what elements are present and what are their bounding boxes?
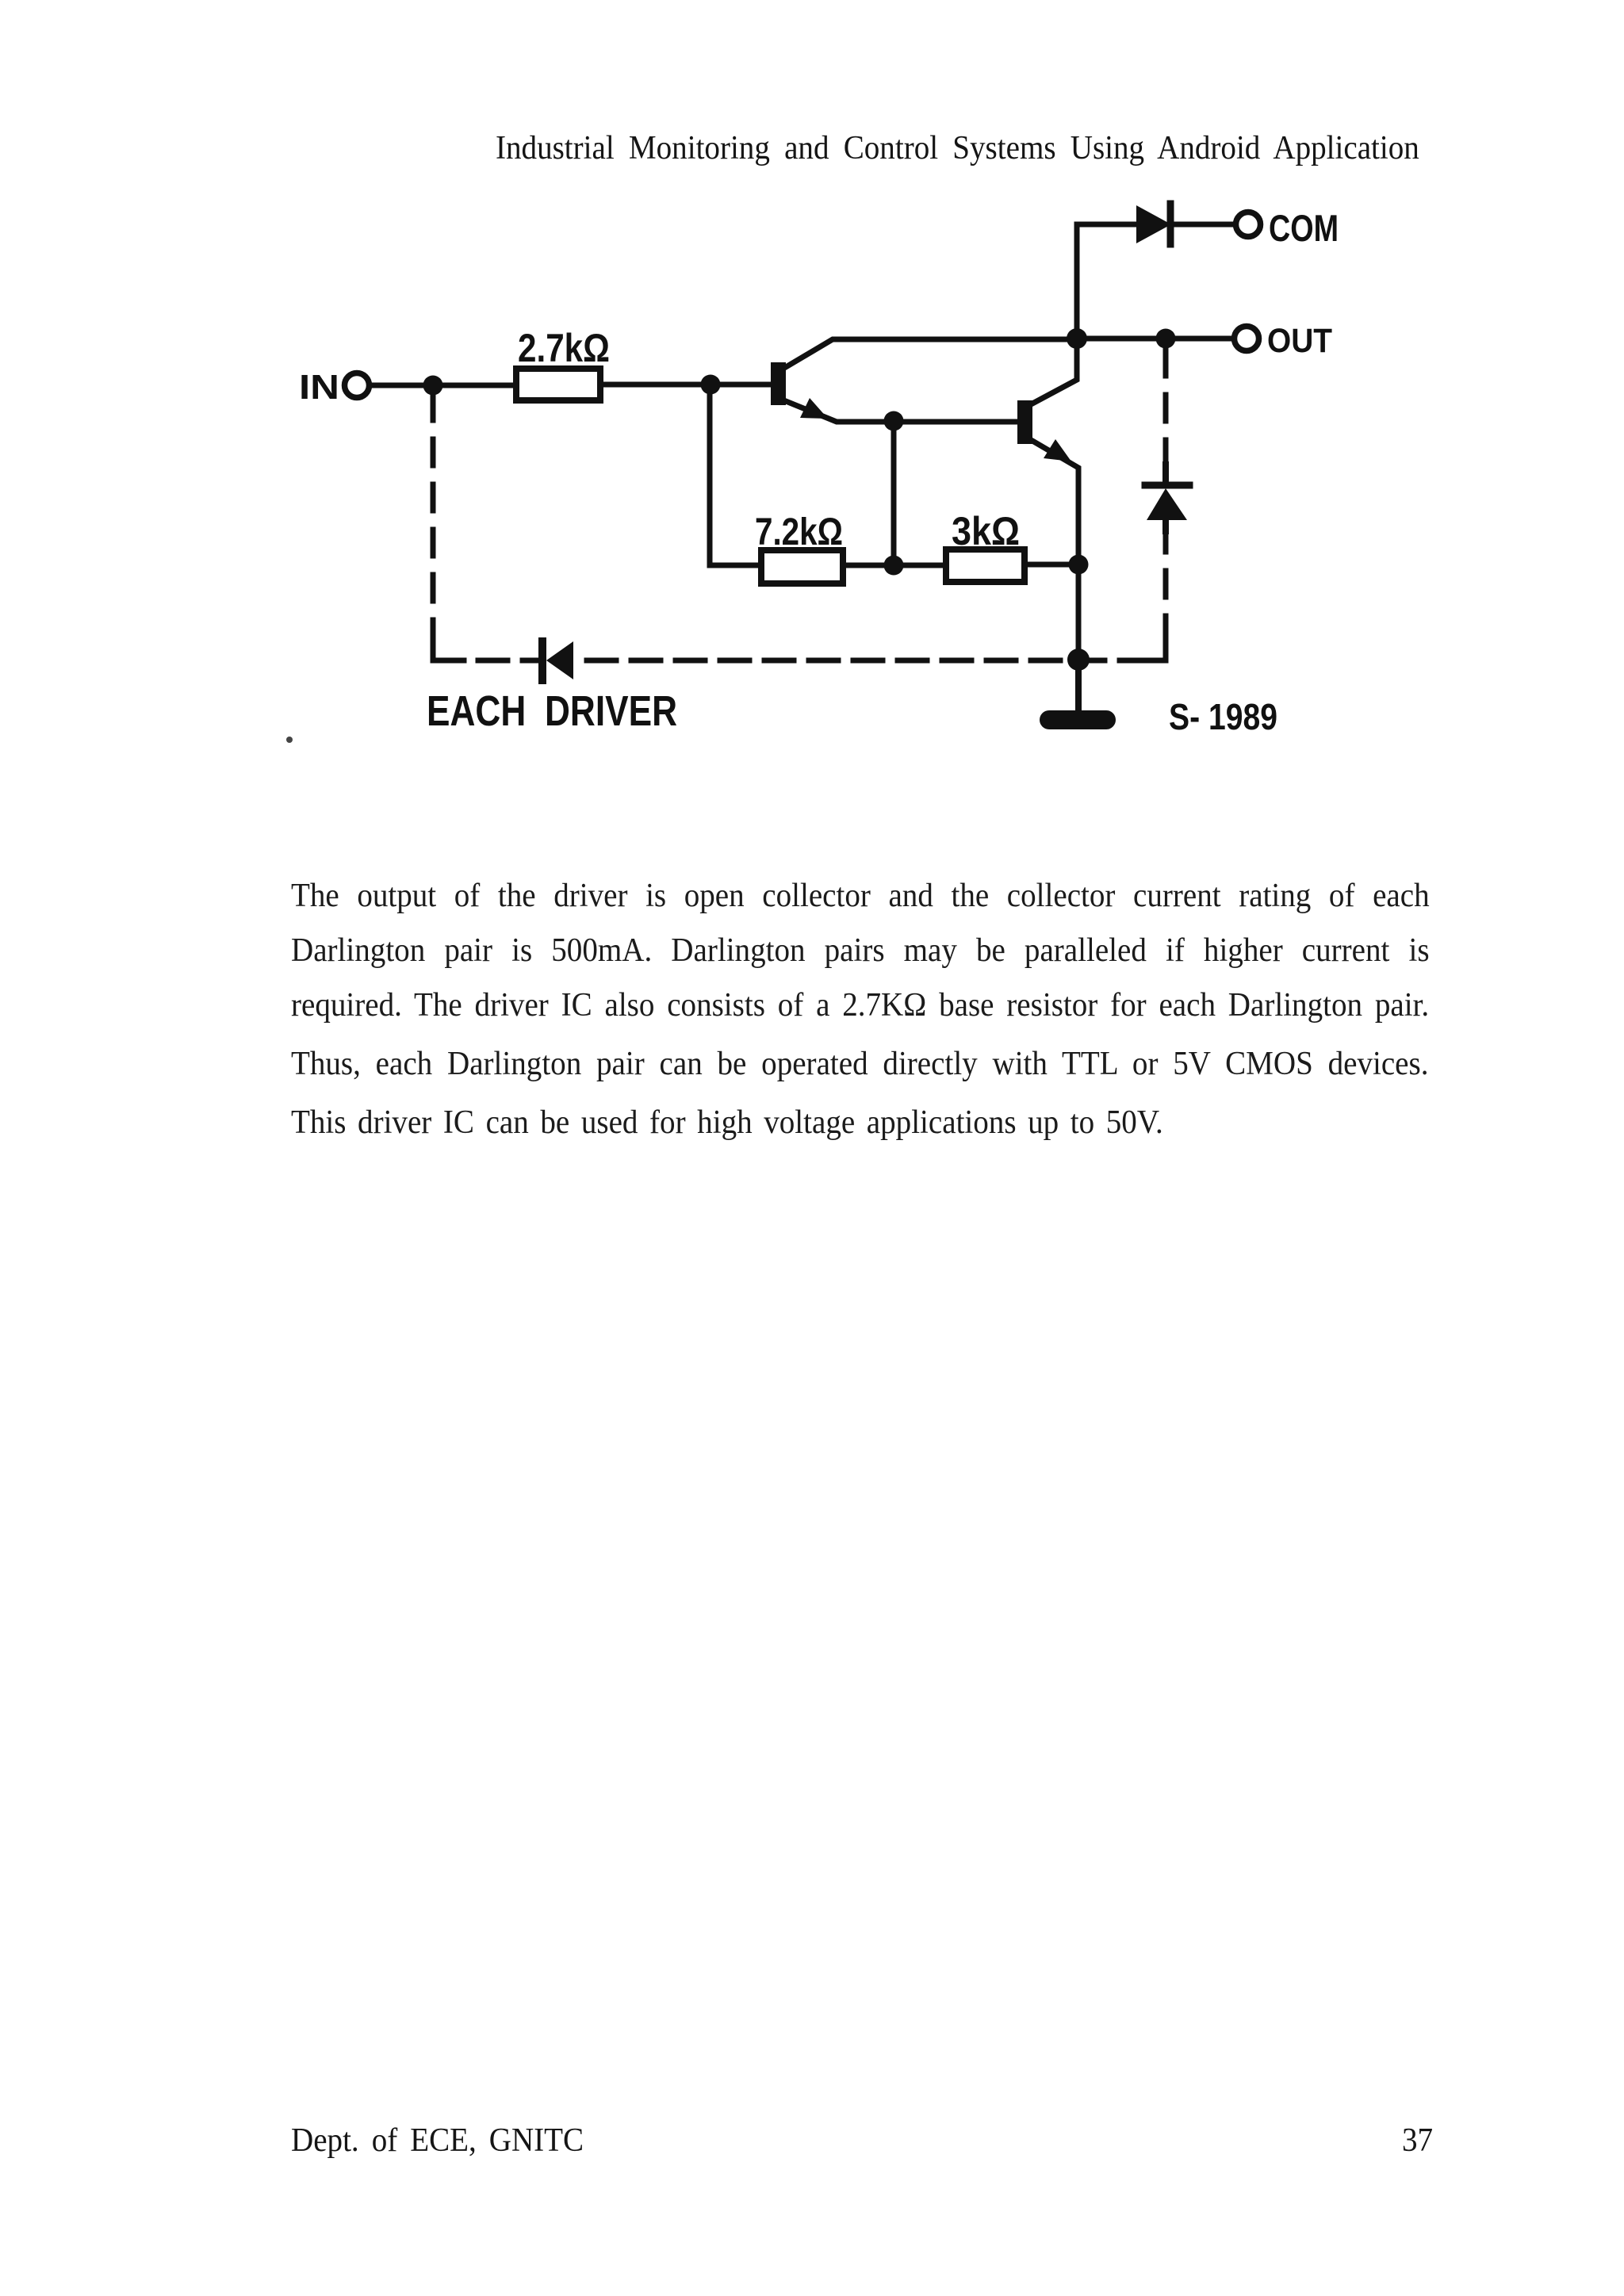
transistor Q1 base bar [771, 362, 786, 405]
terminal IN label [299, 368, 339, 407]
svg-text:IN: IN [299, 368, 339, 407]
node B (base junction) [701, 375, 721, 395]
stray dot mark [286, 737, 293, 743]
diode D2 lower stub [1162, 520, 1169, 531]
svg-text:2.7kΩ: 2.7kΩ [518, 326, 610, 370]
terminal OUT circle [1235, 327, 1259, 351]
wire OUT rail [1077, 336, 1234, 342]
diode D1 triangle [1136, 205, 1171, 243]
diode D1 cathode bar [1167, 204, 1174, 244]
wire dashed left drop [431, 394, 436, 639]
svg-text:3kΩ: 3kΩ [952, 509, 1020, 553]
label 3kOhm [952, 509, 1020, 553]
transistor Q1 emitter arrow [800, 398, 828, 419]
wire dashed bottom-left corner [433, 639, 464, 660]
svg-text:OUT: OUT [1267, 322, 1332, 360]
wire dashed right riser lower [1163, 531, 1169, 642]
transistor Q2 base bar [1017, 400, 1032, 444]
transistor Q2 emitter arrow [1044, 439, 1071, 461]
node A (input junction) [423, 376, 443, 396]
diode D2 cathode bar [1145, 482, 1189, 489]
ground lead [1075, 660, 1082, 712]
wire node B down to 7.2k row [707, 385, 713, 565]
header title [496, 129, 1419, 167]
wire dashed bottom run left of D3 [478, 658, 536, 664]
terminal COM label [1269, 207, 1339, 249]
wire R1 to Q1 base [600, 382, 771, 388]
terminal COM circle [1236, 212, 1261, 237]
wire dashed right riser upper [1163, 349, 1169, 466]
diode D3 cathode bar [538, 641, 546, 680]
node E (Q2 base drive junction) [884, 411, 904, 431]
label 7.2kOhm [755, 511, 843, 553]
resistor R3 3k box [946, 549, 1025, 582]
ground symbol bar [1049, 710, 1106, 729]
svg-text:EACH DRIVER: EACH DRIVER [427, 687, 677, 735]
transistor Q2 collector lead [1032, 339, 1077, 404]
wire row to R2 [710, 563, 761, 568]
footer page number [1402, 2122, 1433, 2160]
diode D2 upper stub [1162, 465, 1169, 485]
body paragraph [0, 0, 1624, 1]
terminal IN circle [345, 373, 370, 398]
wire node E down to node C [891, 421, 897, 556]
diode D2 triangle [1147, 488, 1187, 520]
transistor Q1 emitter lead [786, 401, 1017, 422]
wire dashed right corner [1154, 644, 1166, 660]
transistor Q2 emitter lead [1032, 441, 1078, 714]
svg-text:7.2kΩ: 7.2kΩ [755, 511, 843, 553]
label EACH DRIVER [427, 687, 677, 735]
label 2.7kOhm [518, 326, 610, 370]
node F (collector/OUT junction) [1067, 328, 1087, 349]
wire COM riser and branch [1077, 224, 1136, 339]
node G (OUT dashed tap) [1156, 329, 1176, 349]
diode D3 triangle [546, 641, 573, 679]
resistor R2 7.2k box [761, 550, 843, 584]
wire R3 to node D [1025, 562, 1078, 568]
label S-1989 [1169, 696, 1277, 737]
wire dashed bottom run right of D3 [587, 658, 1151, 664]
transistor Q1 collector lead [786, 339, 1077, 367]
svg-text:S- 1989: S- 1989 [1169, 696, 1277, 737]
wire D1 to COM terminal [1174, 222, 1235, 228]
svg-text:COM: COM [1269, 207, 1339, 249]
terminal OUT label [1267, 322, 1332, 360]
node H (ground junction on dashed run) [1067, 649, 1090, 671]
resistor R1 2.7k box [516, 369, 600, 400]
node C (divider junction) [884, 556, 904, 576]
node D (emitter row junction) [1069, 555, 1089, 575]
wire R2 to node C [843, 563, 946, 568]
footer left [291, 2122, 584, 2160]
wire IN to R1 [370, 383, 516, 388]
